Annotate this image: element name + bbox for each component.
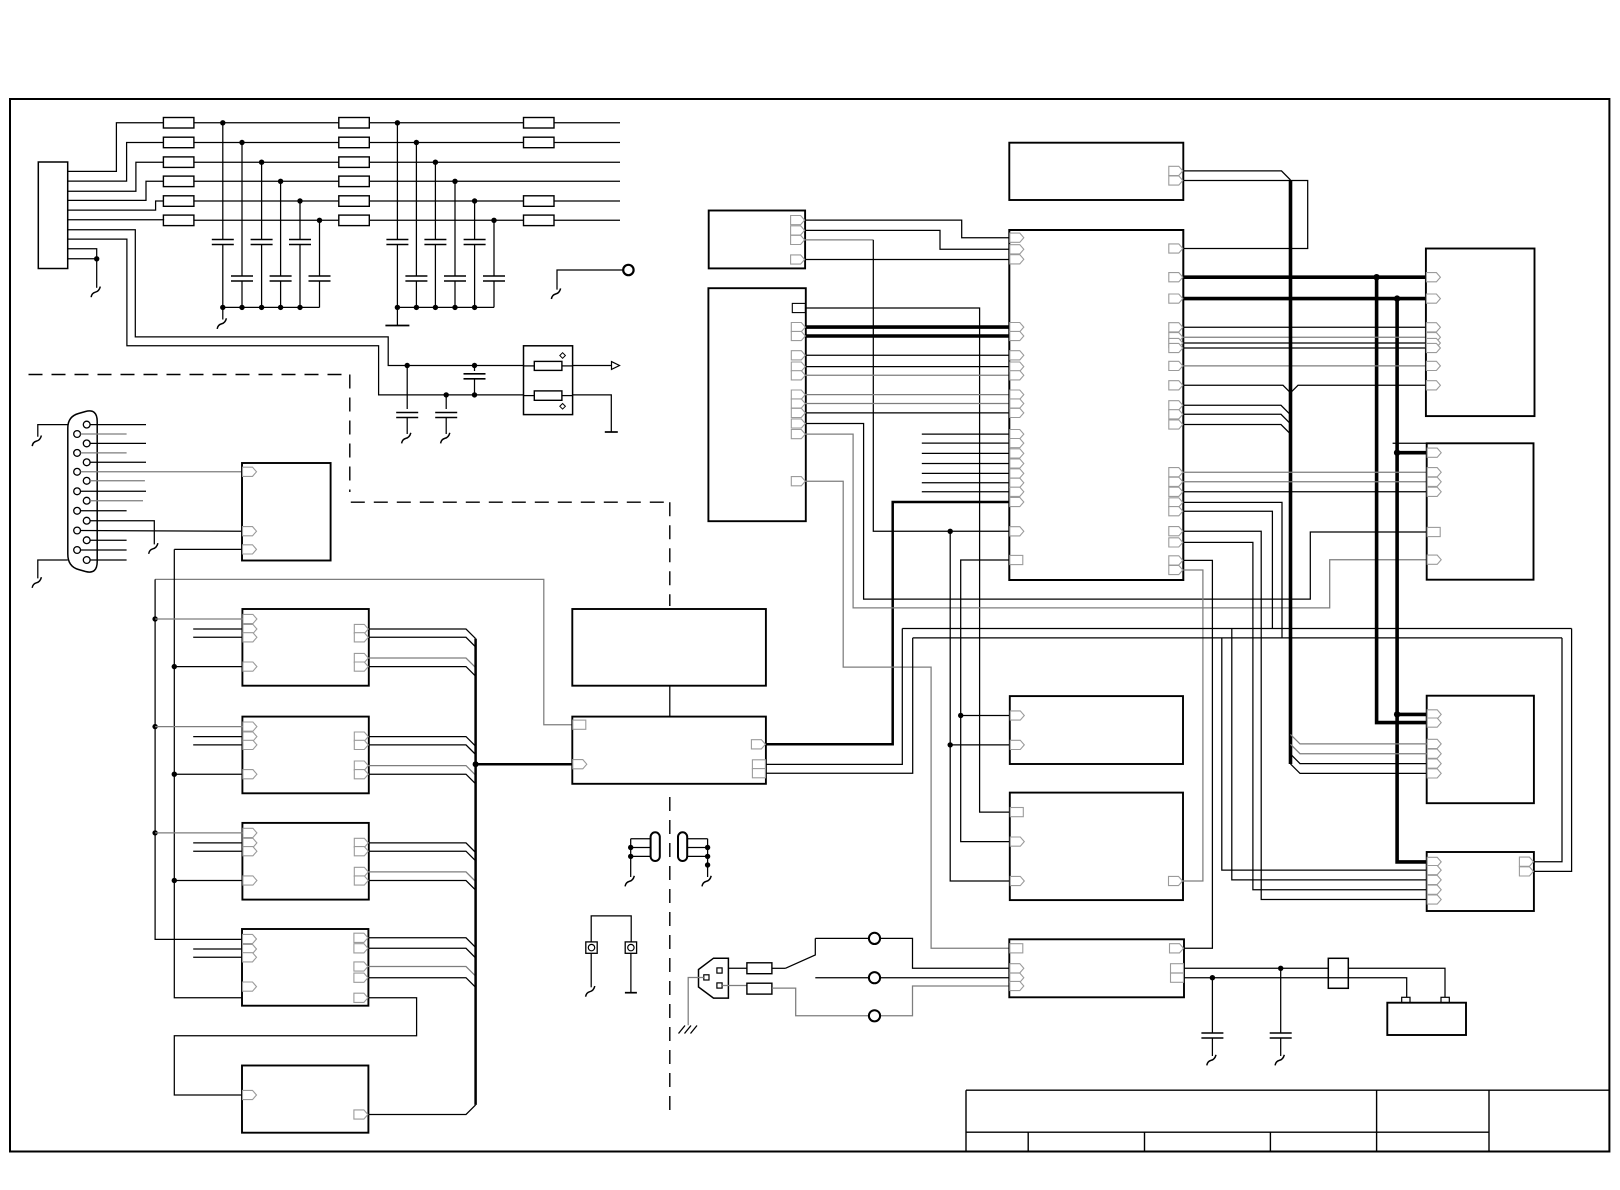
thick vertical net V1 xyxy=(1377,277,1427,722)
capacitor C41 xyxy=(1280,968,1282,1033)
wire bundle to net 638 xyxy=(1183,511,1272,628)
wire to right box2 xyxy=(1183,491,1426,493)
pin glyph xyxy=(1426,361,1440,370)
junction dot xyxy=(1394,450,1400,456)
codec box U12 xyxy=(708,288,805,521)
D-sub pin circle right col 6 xyxy=(83,517,90,524)
pin glyph xyxy=(354,876,368,885)
D-sub pin circle left col 1 xyxy=(74,431,81,438)
pin glyph xyxy=(1169,361,1183,370)
capacitor C12 xyxy=(241,143,243,277)
wire to right box1 xyxy=(1183,336,1426,338)
wire to collector bus xyxy=(369,851,476,861)
pin glyph xyxy=(1427,885,1441,894)
net 638 left leg to U9 out3 xyxy=(766,638,913,773)
wire D-sub pin stub xyxy=(90,424,146,426)
pin glyph xyxy=(243,732,257,741)
pin glyph xyxy=(354,1110,368,1119)
signal ground symbol xyxy=(625,876,634,887)
capacitor C30 xyxy=(406,366,408,410)
pin glyph xyxy=(243,545,257,554)
junction dots xyxy=(628,845,633,850)
junction dot xyxy=(414,305,419,310)
pin glyph xyxy=(791,323,805,332)
pin glyph xyxy=(1010,233,1024,242)
wire to ground xyxy=(96,259,98,288)
pin glyph xyxy=(354,624,368,633)
node dot row4 group2 xyxy=(452,179,457,184)
pin glyph xyxy=(354,944,368,953)
pin glyph xyxy=(1427,468,1441,477)
wire xyxy=(369,122,523,124)
pin glyph xyxy=(791,331,805,340)
phono jack J3 right xyxy=(678,832,687,861)
node dot row3 group2 xyxy=(433,160,438,165)
capacitor C24 xyxy=(454,181,456,276)
wire to open end xyxy=(369,161,620,163)
wire T1 to speaker right terminal xyxy=(1348,968,1445,997)
stub wire xyxy=(922,452,1010,454)
wire xyxy=(369,142,523,144)
wire bus A to U3 pin1 xyxy=(152,616,157,621)
signal ground symbol xyxy=(32,577,41,588)
pin glyph xyxy=(791,477,805,486)
wire to collector bus xyxy=(369,637,476,647)
pin glyph xyxy=(243,953,257,962)
wire filter output with arrow xyxy=(573,365,612,367)
pin U4.2 with stub xyxy=(193,736,242,738)
pin glyph xyxy=(1010,973,1024,982)
pin glyph xyxy=(791,399,805,408)
pin glyph xyxy=(1427,739,1441,748)
wire bus A to U4 pin1 xyxy=(152,724,157,729)
pin glyph xyxy=(1010,876,1024,885)
pin glyph xyxy=(1169,273,1183,282)
pin glyph xyxy=(1427,857,1441,866)
pin glyph xyxy=(1169,401,1183,410)
wire D-sub shell bottom ground xyxy=(38,560,68,578)
wire to collector bus xyxy=(369,872,476,882)
pin glyph xyxy=(243,944,257,953)
pin glyph xyxy=(1169,381,1183,390)
capacitor C15 xyxy=(299,201,301,240)
pin glyph xyxy=(573,760,587,769)
pin glyph xyxy=(1010,469,1024,478)
net 628 horizontal xyxy=(902,628,1571,630)
plug pin neutral xyxy=(717,983,722,988)
wire bundle to right box4 xyxy=(1183,531,1426,899)
wire xyxy=(369,200,523,202)
net 638 right leg to right box4 xyxy=(1534,638,1562,862)
junction dot xyxy=(220,305,225,310)
pin glyph xyxy=(1010,478,1024,487)
wire J3 common xyxy=(707,839,709,877)
buffer IC U5 box xyxy=(242,823,368,900)
pin glyph xyxy=(243,876,257,885)
pin glyph xyxy=(243,624,257,633)
capacitor C26 xyxy=(493,220,495,276)
pin glyph xyxy=(1519,867,1533,876)
pin glyph xyxy=(791,351,805,360)
pin U5.3 with stub xyxy=(193,850,242,852)
pin glyph xyxy=(243,828,257,837)
wire D-sub pin stub xyxy=(81,433,127,435)
D-sub pin circle right col 1 xyxy=(83,421,90,428)
wire merging into data bus xyxy=(1183,425,1290,435)
dashed partition line center xyxy=(351,502,670,1113)
pin glyph xyxy=(1426,333,1440,342)
wire bundle to net 628 xyxy=(1183,502,1282,638)
buffer IC U6 box xyxy=(242,929,368,1006)
wire to open end xyxy=(554,122,620,124)
diamond marker lower xyxy=(560,404,566,410)
wire U12 to main IC xyxy=(806,366,1010,368)
stub wire xyxy=(922,433,1010,435)
earth ground stem group2 xyxy=(396,307,398,325)
wire plug live to fuse xyxy=(728,967,747,969)
wire D-sub pin12 to U-box xyxy=(81,530,243,533)
pin glyph xyxy=(1010,944,1023,953)
D-sub pin circle left col 3 xyxy=(74,468,81,475)
signal ground symbol xyxy=(402,433,411,444)
signal ground symbol xyxy=(441,433,450,444)
pin glyph xyxy=(791,419,805,428)
pin U6.3 with stub xyxy=(193,956,242,958)
wire to open end xyxy=(554,200,620,202)
pin glyph xyxy=(354,633,368,642)
junction dot xyxy=(948,529,953,534)
junction dot xyxy=(297,305,302,310)
pin glyph xyxy=(1427,769,1441,778)
wire U20 out3 to speaker left terminal xyxy=(1184,978,1407,998)
pin glyph xyxy=(354,761,368,770)
wire 531 branch down xyxy=(950,531,1010,881)
node dot row2 group2 xyxy=(414,140,419,145)
resistor FL1 upper xyxy=(534,361,562,370)
pin glyph xyxy=(1010,808,1023,817)
pin glyph xyxy=(1427,875,1441,884)
wire switch middle line xyxy=(815,977,1009,979)
pin glyph xyxy=(1010,331,1024,340)
wire to collector bus xyxy=(369,737,476,747)
pin glyph xyxy=(1427,759,1441,768)
wire U11 out4 to main IC xyxy=(805,259,1009,261)
capacitor C31 xyxy=(445,395,447,409)
pin glyph xyxy=(1169,527,1183,536)
resistor R14 column1 row4 xyxy=(163,176,194,187)
D-sub connector P1 shell xyxy=(68,411,97,572)
net 638 branch to right box4 left pin xyxy=(1222,638,1427,870)
pin glyph xyxy=(243,527,257,536)
pin glyph xyxy=(1010,964,1024,973)
stub wire xyxy=(922,491,1010,493)
pin glyph xyxy=(791,390,805,399)
pin glyph xyxy=(1169,487,1183,496)
resistor R31 column3 row1 xyxy=(524,118,555,129)
pin glyph xyxy=(751,740,765,749)
pin glyph xyxy=(1519,857,1533,866)
pin glyph xyxy=(354,770,368,779)
pin glyph xyxy=(354,740,368,749)
signal ground stem group1 xyxy=(222,307,224,319)
bus B vertical xyxy=(174,549,242,997)
pin glyph xyxy=(1171,964,1184,973)
capacitor C13 xyxy=(261,162,263,239)
pin glyph xyxy=(792,303,805,312)
wire F1-F2 bridge xyxy=(591,916,631,942)
pin glyph xyxy=(1169,343,1183,352)
capacitor C11 xyxy=(222,123,224,240)
junction dot xyxy=(433,305,438,310)
thick vertical net V2 xyxy=(1397,299,1427,862)
pin glyph xyxy=(354,973,368,982)
pin glyph xyxy=(1169,333,1183,342)
pin glyph xyxy=(243,934,257,943)
pin glyph xyxy=(1010,981,1024,990)
pin glyph xyxy=(791,216,805,225)
wire J1 pin2 to resistor row 2 xyxy=(68,143,164,182)
junction dot xyxy=(1394,295,1400,301)
wire to open end xyxy=(554,219,620,221)
pin glyph xyxy=(1169,410,1183,419)
resistor R32 column3 row2 xyxy=(524,137,555,148)
DSP box U9 xyxy=(572,717,766,784)
pin glyph xyxy=(1427,487,1441,496)
junction dot xyxy=(405,363,410,368)
pin glyph xyxy=(1169,244,1183,253)
pin glyph xyxy=(1426,323,1440,332)
wire U2 pin3 to bus B xyxy=(174,548,242,550)
net 638 horizontal xyxy=(913,637,1562,639)
wire switch top line xyxy=(815,938,1009,968)
wire J1 pin8 to filter xyxy=(68,239,524,395)
wire to collector bus xyxy=(368,978,475,988)
mains plug P2 xyxy=(699,958,729,998)
wire xyxy=(194,219,339,221)
wire to right box1 xyxy=(1183,342,1426,344)
dashed partition line upper-left xyxy=(29,375,350,493)
junction dot xyxy=(94,256,99,261)
pin glyph xyxy=(1426,338,1440,347)
pin glyph xyxy=(1169,294,1183,303)
pin glyph xyxy=(1169,565,1183,574)
power supply box U20 xyxy=(1009,939,1184,997)
pin glyph xyxy=(1427,718,1441,727)
pin U3.2 with stub xyxy=(193,628,242,630)
wire filter lower output to earth xyxy=(573,395,612,432)
driver box U16 xyxy=(1426,249,1535,417)
wire D-sub pin10 to ground xyxy=(90,521,154,545)
wire J1 pin7 to filter xyxy=(68,230,524,366)
resistor R22 column2 row2 xyxy=(339,137,370,148)
pin glyph xyxy=(752,760,765,769)
net 628 right leg to right box4 xyxy=(1534,629,1572,872)
pin glyph xyxy=(354,838,368,847)
wire J1 pin6 to resistor row 6 xyxy=(68,219,164,222)
wire branch to U14 pin2 xyxy=(950,744,1010,746)
wire U12 to main IC xyxy=(806,354,1010,356)
pin glyph xyxy=(354,662,368,671)
pin glyph xyxy=(243,1090,257,1099)
pin glyph xyxy=(354,867,368,876)
earth ground symbol group2 xyxy=(385,325,409,327)
pin glyph xyxy=(1427,477,1441,486)
pin glyph xyxy=(1426,294,1440,303)
capacitor C16 xyxy=(319,220,321,276)
connector J1 xyxy=(38,162,67,269)
pin glyph xyxy=(243,740,257,749)
wire D-sub pin6 to U-box input xyxy=(81,471,243,473)
pin glyph xyxy=(1427,749,1441,758)
node dot row5 group1 xyxy=(297,198,302,203)
main IC U13 xyxy=(1009,230,1183,580)
pin glyph xyxy=(1426,343,1440,352)
resistor R15 column1 row5 xyxy=(163,196,194,207)
capacitor C21 xyxy=(396,123,398,240)
wire J1 pin1 to resistor row 1 xyxy=(68,123,164,172)
signal ground symbol xyxy=(1275,1055,1284,1066)
wire U11 out3 long to main IC pin45 xyxy=(805,239,873,241)
audio codec U7 box xyxy=(242,1066,368,1133)
resistor R21 column2 row1 xyxy=(339,118,370,129)
pin glyph xyxy=(1169,538,1183,547)
pin glyph xyxy=(1427,555,1441,564)
pin glyph xyxy=(243,982,257,991)
pin glyph xyxy=(1010,497,1024,506)
capacitor C25 xyxy=(474,201,476,240)
thick branch to right box3 pin1 xyxy=(1397,713,1427,717)
pin glyph xyxy=(1169,323,1183,332)
pin glyph xyxy=(1010,487,1024,496)
pin glyph xyxy=(1169,166,1183,175)
pin glyph xyxy=(354,653,368,662)
switch contact circle xyxy=(869,1010,880,1021)
terminal circle TP1 xyxy=(623,265,633,275)
wire to PSU right pin xyxy=(1183,560,1212,948)
filter module FL1 xyxy=(524,346,573,415)
node dot row4 group1 xyxy=(278,179,283,184)
wire bus A to U5 pin1 xyxy=(152,830,157,835)
junction dot xyxy=(472,305,477,310)
signal ground symbol group1 xyxy=(217,318,226,329)
signal ground symbol xyxy=(702,876,711,887)
pin glyph xyxy=(791,408,805,417)
pin glyph xyxy=(1427,527,1440,536)
wire xyxy=(194,200,339,202)
resistor R25 column2 row5 xyxy=(339,196,370,207)
pin U4.3 with stub xyxy=(193,744,242,746)
node dot row2 group1 xyxy=(239,140,244,145)
gray wire U12 to main IC xyxy=(806,394,1010,396)
wire U6 bottom out staircase to U7 xyxy=(174,998,416,1095)
wire J1 pin5 to resistor row 5 xyxy=(68,201,164,210)
pin glyph xyxy=(1426,273,1440,282)
resistor R11 column1 row1 xyxy=(163,118,194,129)
pin glyph xyxy=(1010,711,1024,720)
speaker terminal right xyxy=(1441,997,1449,1002)
wire U12 out to right box2 via bottom xyxy=(806,424,1427,600)
wire from TP1 xyxy=(557,270,623,290)
node dot row5 group2 xyxy=(472,198,477,203)
resistor R24 column2 row4 xyxy=(339,176,370,187)
wire D-sub pin stub xyxy=(90,559,127,561)
wire to collector bus xyxy=(369,658,476,668)
thick collector bus xyxy=(474,639,477,1105)
pin glyph xyxy=(1010,399,1024,408)
bus exits to U18 xyxy=(1291,734,1427,744)
pin glyph xyxy=(1169,498,1183,507)
ground bus group1 xyxy=(223,306,320,308)
net 628 branch to right box4 left pin xyxy=(1232,629,1427,880)
wire U7 out to collector bus xyxy=(368,1105,475,1115)
wire filter internal stubs xyxy=(524,365,535,367)
wire merging into data bus xyxy=(1183,405,1290,415)
pin glyph xyxy=(1169,507,1183,516)
pin glyph xyxy=(791,371,805,380)
wire U11 out2 to main IC xyxy=(805,230,1009,249)
wire to right box1 xyxy=(1183,347,1426,349)
gray wire U12 out to PSU pin1 xyxy=(806,481,1010,948)
interface box U2 xyxy=(242,463,331,561)
wire xyxy=(369,219,523,221)
wire D-sub shell top ground xyxy=(38,425,68,437)
display box U8 xyxy=(572,609,766,686)
signal ground symbol xyxy=(32,436,41,447)
pin glyph xyxy=(243,633,257,642)
wire to right box2 xyxy=(1183,471,1426,473)
pin glyph xyxy=(1426,381,1440,390)
pin glyph xyxy=(1010,390,1024,399)
pin glyph xyxy=(1427,895,1441,904)
wire J1 pin10 xyxy=(68,258,97,260)
thick wire to right box1 pin1 xyxy=(1183,275,1426,279)
stub wire xyxy=(922,472,1010,474)
node dot row1 group2 xyxy=(395,120,400,125)
wire D-sub pin stub xyxy=(81,510,127,512)
clock box U10 xyxy=(1009,143,1183,200)
fuse holder F1 xyxy=(586,942,597,953)
wire to collector bus xyxy=(369,667,476,677)
wire D-sub pin stub xyxy=(81,452,127,454)
wire to right box1 xyxy=(1183,326,1426,328)
wire xyxy=(194,122,339,124)
wire U12 to main IC xyxy=(806,412,1010,414)
wire main IC 560 to U14/U15 xyxy=(961,560,1010,842)
pin glyph xyxy=(1170,944,1184,953)
pin U6.2 with stub xyxy=(193,948,242,950)
stub wire xyxy=(922,463,1010,465)
node dot row1 group1 xyxy=(220,120,225,125)
bus A vertical xyxy=(155,579,242,939)
pin U3.3 with stub xyxy=(193,636,242,638)
thick wire collector bus to DSP pin2 xyxy=(476,763,573,766)
resistor FL1 lower xyxy=(534,391,562,400)
pin glyph xyxy=(791,430,805,439)
junction dot xyxy=(1394,711,1400,717)
wire D-sub pin stub xyxy=(81,490,147,492)
pin glyph xyxy=(791,362,805,371)
memory box U15 xyxy=(1010,793,1183,901)
pin glyph xyxy=(1169,176,1183,185)
pin glyph xyxy=(243,662,257,671)
wire neutral line xyxy=(772,986,1009,1016)
gray wire U12 to main IC xyxy=(806,374,1010,376)
pin glyph xyxy=(1010,362,1024,371)
wire D-sub pin stub xyxy=(90,539,127,541)
pin glyph xyxy=(1010,527,1024,536)
wire to open end xyxy=(554,142,620,144)
wire to collector bus xyxy=(369,843,476,853)
